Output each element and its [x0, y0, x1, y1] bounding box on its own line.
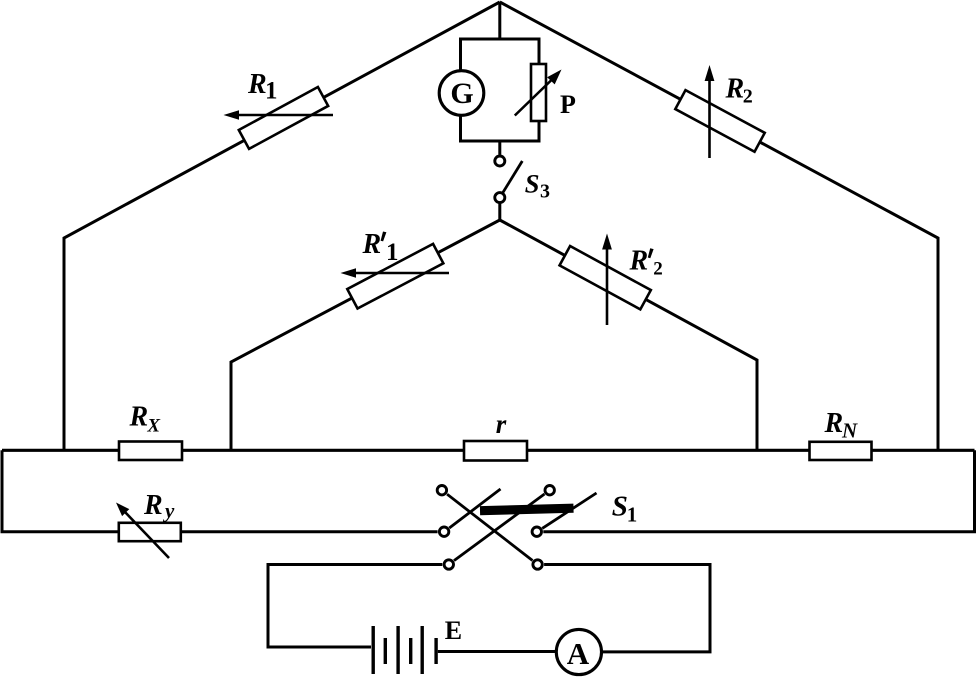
- svg-text:S: S: [612, 491, 628, 523]
- svg-text:S: S: [525, 168, 540, 198]
- svg-text:E: E: [445, 616, 462, 645]
- svg-text:P: P: [560, 90, 576, 119]
- wire: right bridge arm (apex to right corner to bus): [500, 2, 938, 450]
- wire: G-P loop rectangle: [461, 39, 540, 141]
- svg-text:R: R: [129, 402, 149, 433]
- resistor RN: [810, 442, 872, 460]
- svg-text:1: 1: [265, 78, 278, 105]
- svg-text:G: G: [450, 77, 473, 110]
- wire: left bridge arm (apex to left corner to bus): [64, 2, 500, 450]
- ammeter A: [556, 629, 601, 674]
- rheostat Ry: [116, 503, 181, 559]
- resistor R'2 (variable, inner right): [560, 234, 651, 326]
- switch S3: [495, 156, 523, 203]
- svg-text:2: 2: [743, 86, 753, 108]
- resistor R2 (variable, on right arm): [675, 65, 764, 158]
- svg-text:R: R: [362, 229, 382, 260]
- svg-text:R: R: [247, 69, 267, 100]
- svg-text:2: 2: [653, 259, 663, 280]
- battery E: [373, 626, 436, 674]
- wire: battery to ammeter: [438, 650, 555, 653]
- resistor RX: [119, 442, 182, 461]
- wire: junction to R'2 branch (down-right, then vertical to bus): [500, 220, 757, 450]
- svg-text:A: A: [567, 636, 590, 671]
- svg-text:N: N: [841, 419, 858, 443]
- wire: loop bottom to switch S3: [498, 141, 501, 155]
- wire: S1 bottom-left to battery: [268, 565, 442, 648]
- svg-text:R: R: [143, 490, 163, 521]
- svg-text:R: R: [824, 408, 844, 439]
- galvanometer U1 (G): [439, 71, 484, 116]
- wire: apex stub down to G-P loop: [498, 2, 501, 39]
- resistor R'1 (variable, inner left): [341, 244, 450, 309]
- wire: ammeter to S1 bottom-right: [544, 565, 710, 652]
- svg-text:1: 1: [627, 503, 638, 527]
- svg-text:R: R: [725, 74, 745, 105]
- svg-text:r: r: [496, 409, 507, 439]
- wire: junction to R'1 branch (down-left, then vertical to bus): [231, 220, 500, 450]
- svg-text:X: X: [146, 416, 161, 437]
- wire: main bus bar: [2, 449, 975, 452]
- wire: left edge down and lower-left branch to S1: [2, 450, 438, 531]
- resistor r: [464, 441, 527, 461]
- resistor R1 (variable, on left arm): [224, 87, 334, 149]
- wire: S3 to bridge junction: [498, 203, 501, 220]
- switch S1 (reversing switch): [437, 486, 596, 570]
- wire: right edge down and lower-right branch to S1: [543, 450, 974, 531]
- rheostat P: [515, 64, 562, 121]
- svg-text:1: 1: [386, 239, 399, 266]
- svg-text:3: 3: [540, 181, 550, 203]
- svg-text:R: R: [629, 246, 649, 277]
